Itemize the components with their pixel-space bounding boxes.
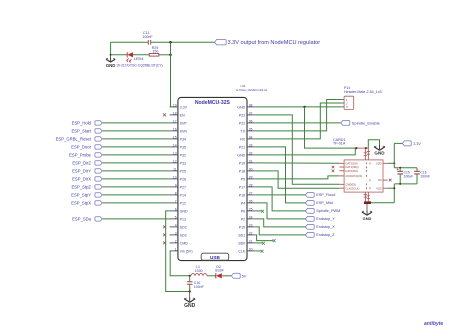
svg-text:38: 38 [249,103,253,107]
CARD1 right pin CD [378,178,388,182]
svg-text:SD1: SD1 [238,233,245,237]
wire pin36 P22 to Spindle_Enable [255,122,340,124]
CARD1 inner pin-number marks [366,162,370,189]
wire LED to R29 [133,54,149,56]
IC U14 right pin 23 (P15) [239,223,256,229]
global label ESP_DirX [72,176,102,181]
svg-text:P5: P5 [241,177,245,181]
wire card bottom GND to rail [371,202,394,204]
svg-text:SVP: SVP [180,121,188,125]
IC U14 right pin 25 (P0) [241,207,256,213]
svg-text:1000: 1000 [195,269,203,273]
svg-text:11: 11 [173,167,177,171]
wire GND pin38 to header pin3 [255,106,341,108]
svg-text:ESP_StpX: ESP_StpX [71,200,91,205]
IC U14 left pin 16 (SVN) [170,127,188,133]
svg-text:P15: P15 [239,225,245,229]
wire pin28 P17 to Spindle_PWM [255,187,305,211]
junction GND corner [110,54,112,56]
wire VSS to rail [388,187,395,189]
no-connect pin 4 SD2 [163,225,166,228]
global label Endstop_Y [305,217,335,222]
wire pin23 P15 to Endstop_Z [255,227,305,235]
wire 3.3V rail top (left of C11) [111,41,148,43]
junction card top row B [365,147,367,149]
wire pin30 P18 to card CLK [255,171,339,188]
svg-text:3: 3 [175,231,177,235]
svg-text:21: 21 [249,239,253,243]
global label Endstop_X [305,225,335,230]
global label ESP_StpZ [71,184,102,189]
svg-text:4: 4 [175,223,177,227]
wire VDD to 3.3V rail [388,162,395,164]
wire RX pin34 to header pin2 [255,103,341,139]
IC U14 right pin 24 (P2) [241,215,256,221]
svg-text:26: 26 [249,199,253,203]
svg-text:Endstop_X: Endstop_X [316,225,335,229]
IC U14 NodeMCU-32S body [178,97,247,260]
svg-text:20: 20 [249,247,253,251]
no-connect pin 25 P0 [261,210,264,213]
IC U14 left pin 4 (SD2) [170,223,187,229]
wire GND vertical rail (right) [393,184,395,203]
global label ESP_Flood [305,193,335,198]
svg-text:P16: P16 [239,193,245,197]
svg-text:SS34: SS34 [215,268,224,272]
svg-text:Ai-Thinker_NodeMCU-32S.UA: Ai-Thinker_NodeMCU-32S.UA [236,89,268,92]
junction C15 top [399,167,401,169]
CARD1 left pin CLK(SCLK) [339,186,359,190]
wire GND vertical to card top row [305,107,357,148]
IC U14 right pin 33 (P21) [239,143,256,149]
wire red bridge card top [356,147,368,149]
no-connect pin 21 SD0 [262,242,265,245]
global label ESP_Door [71,144,102,149]
svg-text:27: 27 [249,191,253,195]
wire pin25 P0 stub [255,210,261,212]
IC U14 right pin 20 (CLK) [238,247,255,253]
svg-text:12: 12 [173,159,177,163]
global label ESP_Mist [305,201,333,206]
svg-text:antibyte: antibyte [424,321,443,327]
IC U14 USB connector box [201,253,229,260]
svg-text:GND: GND [237,105,245,109]
IC U14 left pin 17 (SVP) [170,119,188,125]
svg-text:24: 24 [249,215,253,219]
svg-text:Endstop_Z: Endstop_Z [316,233,335,237]
svg-text:ESP_SDa: ESP_SDa [72,216,92,221]
svg-text:P26: P26 [180,177,186,181]
svg-text:P4: P4 [241,201,245,205]
ground GND top-left [106,55,116,68]
svg-text:P22: P22 [239,121,245,125]
svg-text:Spindle_PWM: Spindle_PWM [316,209,340,213]
svg-text:P2: P2 [241,217,245,221]
junction VDD rail [393,162,395,164]
global label Spindle_Enable [341,120,381,125]
wire pin24 P2 to Endstop_X [255,219,305,227]
wire ESP_Hold to pin 17 [102,122,169,124]
global label ESP_SDa [72,216,102,221]
svg-text:P23: P23 [239,113,245,117]
svg-text:P14: P14 [180,193,186,197]
svg-text:GND: GND [184,303,196,309]
IC U14 right pin 31 (P19) [239,159,256,165]
global label ESP_StpX [71,200,102,205]
CARD1 left pin CMD(DI) [339,182,356,186]
svg-text:U14: U14 [241,84,246,88]
CARD1 right pin VDD [376,161,388,165]
svg-text:35: 35 [249,127,253,131]
IC U14 right pin 26 (P4) [241,199,256,205]
svg-text:33: 33 [249,143,253,147]
no-connect pin 18 EN [163,113,166,116]
svg-text:ESP_Door: ESP_Door [71,144,91,149]
IC U14 left pin 2 (CMD) [170,239,189,245]
junction L1/C10 node [189,275,191,277]
svg-text:ESP_StpZ: ESP_StpZ [71,184,91,189]
svg-text:VDD: VDD [376,161,382,165]
IC U14 right pin 21 (SD0) [238,239,255,245]
svg-text:SD2: SD2 [180,225,187,229]
capacitor C16 100nF [414,168,430,184]
svg-text:P21: P21 [239,145,245,149]
net flag 3.3V output from NodeMCU regulator [215,40,321,47]
svg-text:34: 34 [249,135,253,139]
wire pin 1 Vin(5V) down [170,251,190,276]
junction VSS rail [393,187,395,189]
IC U14 left pin 11 (P25) [170,167,186,173]
IC U14 left pin 13 (P32) [170,151,186,157]
svg-text:DAT0(DO): DAT0(DO) [345,169,358,173]
wire pin32 GND to card top row [255,148,355,155]
svg-text:CMD: CMD [180,241,189,245]
no-connect CARD1 CD [389,179,392,182]
svg-text:P32: P32 [180,153,186,157]
svg-text:SD3: SD3 [180,233,187,237]
svg-text:GND: GND [106,63,116,68]
svg-text:5: 5 [175,215,177,219]
wire caps top rail [394,167,417,169]
svg-text:ESP_Hold: ESP_Hold [72,120,92,125]
no-connect pin 3 SD3 [163,233,166,236]
wire pin37 P23 to card CMD [255,115,339,184]
wire LED row left segment [111,54,127,56]
svg-text:31: 31 [249,159,253,163]
svg-text:100nF: 100nF [142,35,153,39]
svg-text:Endstop_Y: Endstop_Y [316,217,335,221]
wire ESP_GRBL_Reset to pin 15 [102,138,169,140]
svg-text:Spindle_Enable: Spindle_Enable [352,120,381,125]
wire ESP_StpX to pin 7 [102,202,169,204]
svg-text:25: 25 [249,207,253,211]
svg-text:ESP_Start: ESP_Start [71,128,91,133]
inductor L1 [191,265,207,276]
svg-text:ESP_Probe: ESP_Probe [69,152,92,157]
capacitor C15 100uF polarized [397,168,413,184]
svg-text:36: 36 [249,119,253,123]
svg-text:3.3V: 3.3V [180,105,188,109]
svg-text:1: 1 [175,247,177,251]
svg-text:RX: RX [240,137,246,141]
svg-text:ESP_GRBL_Reset: ESP_GRBL_Reset [56,136,92,141]
svg-text:29: 29 [249,175,253,179]
svg-text:CMD(DI): CMD(DI) [345,182,356,186]
svg-text:Vin (5V): Vin (5V) [180,249,193,253]
wire ESP_DirZ to pin 12 [102,162,169,164]
global label Spindle_PWM [305,209,340,214]
no-connect pin 20 CLK [261,250,264,253]
IC U14 right pin 22 (SD1) [238,231,255,237]
svg-text:GND: GND [363,216,372,221]
svg-text:P18: P18 [239,169,245,173]
junction R29/3.3V vertical [169,54,172,57]
svg-text:7: 7 [175,199,177,203]
IC U14 left pin 9 (P27) [170,183,186,189]
resistor R29 [149,46,159,56]
svg-text:10: 10 [173,175,177,179]
IC U14 left pin 10 (P26) [170,175,186,181]
svg-text:GND: GND [237,153,245,157]
svg-text:ESP_DirY: ESP_DirY [72,168,91,173]
IC U14 right pin 29 (P5) [241,175,256,181]
IC U14 left pin 12 (P33) [170,159,186,165]
CARD1 left pin CD/DAT3(CS) [339,174,362,178]
svg-text:DAT2(DO): DAT2(DO) [345,161,358,165]
svg-text:16: 16 [173,127,177,131]
svg-text:5V: 5V [242,275,247,279]
svg-text:P27: P27 [180,185,186,189]
svg-text:100nF: 100nF [194,285,204,289]
svg-text:P35: P35 [180,145,186,149]
svg-text:23: 23 [249,223,253,227]
global label Endstop_Z [305,233,335,238]
wire pin22 SD1 stub [255,235,273,241]
ground GND card-bottom [362,204,372,221]
junction C15 bottom [399,183,401,185]
svg-text:CD: CD [378,178,382,182]
svg-text:P13: P13 [180,217,186,221]
wire GND drop left [110,42,112,55]
wire pin21 SD0 stub [255,242,262,244]
global label ESP_Start [71,128,102,133]
IC U14 left pin 7 (P12) [170,199,186,205]
wire 3.3V rail top (right of C11) [151,41,215,43]
wire L1 to D2 [207,275,216,277]
no-connect CARD1 DAT1 [332,166,335,169]
net flag 3.3V (card) [402,141,421,146]
svg-text:SD0: SD0 [238,241,245,245]
wire pin31 P19 to card DAT pin [255,162,339,164]
svg-text:CLK: CLK [238,249,246,253]
CARD1 bottom shield pins [364,192,370,201]
IC U14 left pin 14 (P35) [170,143,186,149]
wire D2 to 5V flag [222,275,232,277]
svg-text:P12: P12 [180,201,186,205]
global label ESP_Probe [69,152,102,157]
wire pin20 CLK stub [255,250,260,252]
LED LED4 [116,52,162,67]
junction GND rail [303,106,305,108]
junction card top row A [355,147,357,149]
svg-text:30: 30 [249,167,253,171]
IC U14 left pin 1 (Vin (5V)) [170,247,193,253]
wire ESP_StpY to pin 8 [102,194,169,196]
CARD1 right pin VSS [376,186,388,190]
svg-text:ESP_DirZ: ESP_DirZ [72,160,91,165]
IC U14 right pin 35 (TX) [241,127,256,133]
wire ESP_SDa to pin 5 P13 [102,218,169,220]
svg-text:18: 18 [173,111,177,115]
svg-text:SVN: SVN [180,129,188,133]
IC U14 left pin 3 (SD3) [170,231,187,237]
wire pin29 P5 to card CD/DAT3 [255,176,339,179]
svg-text:P25: P25 [180,169,186,173]
svg-text:13: 13 [173,151,177,155]
ground GND card-top [374,145,385,155]
svg-text:17: 17 [173,119,177,123]
capacitor C10 [187,276,204,292]
IC U14 right pin 30 (P18) [239,167,256,173]
svg-text:CD/DAT3(CS): CD/DAT3(CS) [345,174,362,178]
svg-text:150: 150 [152,49,158,53]
CARD1 left pin DAT1(IRQ) [339,165,358,169]
global label ESP_GRBL_Reset [56,136,103,141]
svg-text:ESP_Flood: ESP_Flood [316,193,335,197]
IC U14 left pin 15 (P34) [170,135,186,141]
wire 3.3V vertical rail (top) [393,143,395,167]
IC U14 right pin 37 (P23) [239,111,256,117]
wire ESP_DirY to pin 11 [102,170,169,172]
junction bar card bottom [364,201,371,204]
IC U14 left pin 6 (GND) [170,207,188,213]
IC U14 right pin 27 (P16) [239,191,256,197]
wire pin33 P21 to ESP_Mist [255,147,305,203]
svg-text:P0: P0 [241,209,245,213]
IC U14 left pin 18 (EN) [170,111,185,117]
wire 3.3V vertical to pin 19 [171,42,178,107]
CARD1 top shield pins [364,148,370,160]
IC U14 left pin 5 (P13) [170,215,186,221]
connector P14 Header-Male-2.54_1x3 [342,86,382,110]
svg-text:22: 22 [249,231,253,235]
svg-text:P34: P34 [180,137,186,141]
svg-text:37: 37 [249,111,253,115]
global label ESP_StpY [71,192,102,197]
wire card top to GND [368,140,379,148]
svg-text:TX: TX [241,129,246,133]
wire pin26 P4 to Endstop_Y [255,203,305,219]
IC U14 right pin 34 (RX) [240,135,255,141]
diode D2 [215,265,224,279]
no-connect pin 2 CMD [163,241,166,244]
svg-text:9: 9 [175,183,177,187]
svg-text:P33: P33 [180,161,186,165]
CARD1 left pin DAT0(DO) [339,169,358,173]
svg-text:28: 28 [249,183,253,187]
wire ESP_StpZ to pin 9 [102,186,169,188]
CARD1 left pin DAT2(DO) [339,161,358,165]
no-connect CARD1 DAT0 [332,170,335,173]
svg-text:P17: P17 [239,185,245,189]
svg-text:EN: EN [180,113,185,117]
svg-text:DAT1(IRQ): DAT1(IRQ) [345,165,358,169]
wire pin27 P16 to ESP_Flood [255,194,305,196]
net flag 5V [231,273,246,278]
IC U14 right pin 36 (P22) [239,119,256,125]
wire TX pin35 to header pin1 [255,100,341,131]
SD card socket CARD1 TF-01A body [344,160,383,192]
wire ESP_DirX to pin 10 [102,178,169,180]
svg-text:6: 6 [175,207,177,211]
svg-text:CLK(SCLK): CLK(SCLK) [345,186,359,190]
svg-text:14: 14 [173,143,177,147]
svg-text:3.3V output from NodeMCU regul: 3.3V output from NodeMCU regulator [228,40,321,46]
svg-text:ESP_StpY: ESP_StpY [71,192,91,197]
global label ESP_Hold [72,120,103,125]
svg-text:NodeMCU-32S: NodeMCU-32S [195,100,231,106]
svg-text:USB: USB [210,255,221,260]
wire ESP_Start to pin 16 [102,130,169,132]
svg-text:19-217/GYSC-CQ2RBL/3T(CY): 19-217/GYSC-CQ2RBL/3T(CY) [116,64,162,68]
wire R29 to 3.3V vertical [159,54,171,56]
capacitor C11 [142,31,153,44]
IC U14 right pin 28 (P17) [239,183,256,189]
wire caps bottom rail [394,183,417,185]
IC U14 right pin 38 (GND) [237,103,255,109]
IC U14 right pin 32 (GND) [237,151,255,157]
svg-text:LED4: LED4 [134,56,145,61]
svg-text:Header-Male-2.54_1x3: Header-Male-2.54_1x3 [344,90,382,94]
wire 3.3V flag stub [394,142,402,144]
IC U14 left pin 19 (3.3V) [170,103,188,109]
svg-text:TF-01A: TF-01A [333,142,346,146]
global label ESP_DirY [72,168,102,173]
svg-text:VSS: VSS [376,186,382,190]
svg-text:P19: P19 [239,161,245,165]
svg-text:GND: GND [180,209,188,213]
svg-text:GND: GND [374,151,385,156]
wire ESP_Probe to pin 13 [102,154,169,156]
global label ESP_DirZ [72,160,102,165]
junction C10 bottom / GND [189,290,191,292]
no-connect pin 22 SD1 [273,239,276,242]
svg-text:2: 2 [175,239,177,243]
ground GND bottom-center [184,292,196,310]
IC U14 left pin 8 (P14) [170,191,186,197]
svg-text:100uF: 100uF [404,174,414,178]
svg-text:100nF: 100nF [420,174,430,178]
wire pin 6 GND down [166,211,190,292]
svg-text:ESP_DirX: ESP_DirX [72,176,91,181]
svg-text:ESP_Mist: ESP_Mist [316,201,334,205]
svg-text:3.3V: 3.3V [413,142,421,146]
svg-text:8: 8 [175,191,177,195]
junction C11/3.3V vertical [169,41,172,44]
svg-text:15: 15 [173,135,177,139]
wire ESP_Door to pin 14 [102,146,169,148]
svg-text:32: 32 [249,151,253,155]
